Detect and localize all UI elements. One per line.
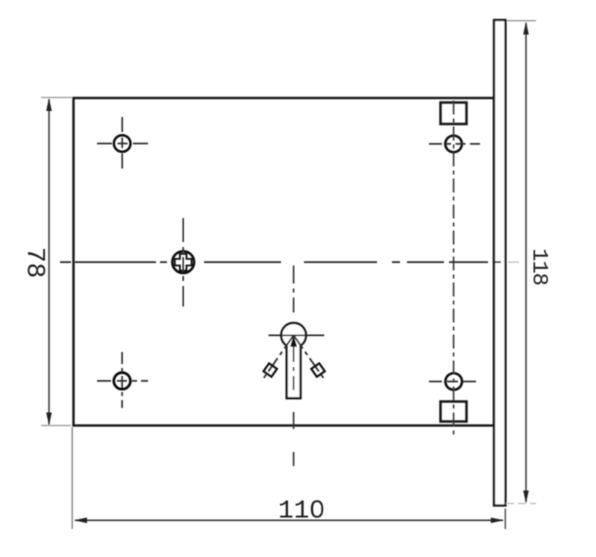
extension line top-left <box>41 97 72 99</box>
arrow 110 left <box>74 518 87 524</box>
arrow up at keyhole center <box>290 335 297 347</box>
arrow 118 top <box>523 22 529 35</box>
centerline vertical top-left hole <box>121 117 123 169</box>
centerline horizontal bottom-right hole <box>429 381 480 383</box>
keyhole vertical centerline shaft below <box>293 344 295 466</box>
arrow 78 top <box>46 98 52 111</box>
diagonal centerline right <box>294 335 326 381</box>
square cutout bottom-right <box>441 402 467 422</box>
extension line top-right <box>507 20 536 22</box>
main horizontal centerline <box>60 261 501 263</box>
arrow 78 bottom <box>46 413 52 426</box>
centerline faint tail right of faceplate <box>508 261 519 263</box>
dimension line 78 <box>48 99 50 425</box>
centerline vertical through screw <box>182 218 184 307</box>
phillips cross slot <box>175 254 192 271</box>
keyhole horizontal centerline <box>269 334 325 336</box>
diagonal centerline left <box>262 335 294 381</box>
arrow 110 right <box>491 518 504 524</box>
extension line bottom-right118 <box>506 503 536 505</box>
hole top-right <box>445 136 462 153</box>
extension line bottom 110 right <box>504 509 506 530</box>
plate outline <box>74 98 495 426</box>
keyhole outline <box>281 323 306 398</box>
keyhole vertical centerline above <box>293 266 295 323</box>
hole bottom-right <box>445 373 462 390</box>
dimension line 110 <box>75 519 503 521</box>
centerline horizontal top-right hole <box>429 143 480 145</box>
svg-text:78: 78 <box>20 247 50 278</box>
centerline horizontal top-left hole <box>97 143 148 145</box>
diamond pin left <box>263 363 277 377</box>
extension line bottom-left <box>41 425 71 427</box>
hole bottom-left <box>114 373 131 390</box>
faceplate strip <box>494 20 506 506</box>
centerline vertical bottom-left hole <box>121 352 123 408</box>
centerline horizontal bottom-left hole <box>97 380 148 382</box>
centerline vertical right column through squares and holes <box>453 101 455 438</box>
diamond pin right <box>311 363 325 377</box>
screw hole center (phillips) <box>172 251 194 273</box>
arrow 118 bottom <box>523 491 529 504</box>
extension line bottom 110 left <box>71 427 73 529</box>
dimension line 118 <box>525 23 527 502</box>
svg-text:118: 118 <box>526 248 551 285</box>
square cutout top-right <box>441 103 467 125</box>
hole top-left <box>114 135 131 152</box>
